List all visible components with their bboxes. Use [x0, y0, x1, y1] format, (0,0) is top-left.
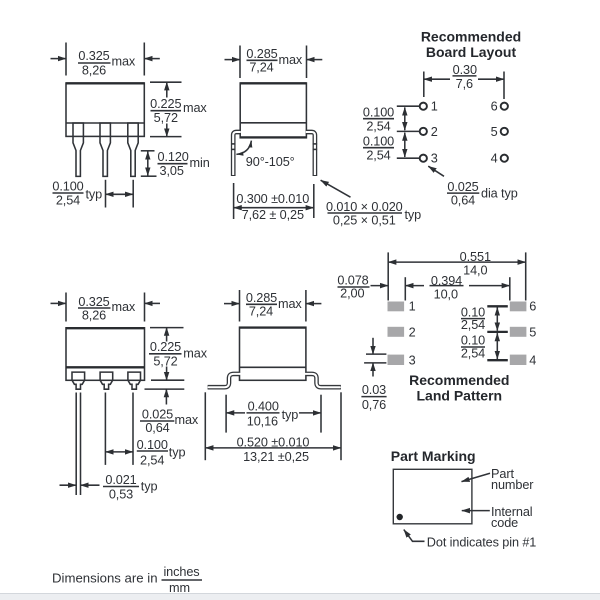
svg-text:0.03: 0.03 — [362, 383, 386, 397]
svg-text:13,21 ±0,25: 13,21 ±0,25 — [243, 450, 309, 464]
dimension 0.325/8,26 max (view4 width) — [51, 293, 161, 323]
hole 2 — [420, 128, 427, 135]
dimension 0.03/0,76 (pad height) — [361, 338, 386, 412]
svg-text:0.021: 0.021 — [105, 473, 136, 487]
svg-text:5,72: 5,72 — [153, 354, 177, 368]
svg-text:0.010 × 0.020: 0.010 × 0.020 — [326, 200, 403, 214]
SMD lead 1 front — [72, 372, 85, 389]
svg-text:0.285: 0.285 — [246, 291, 277, 305]
hole 1 — [420, 103, 427, 110]
footer note Dimensions are in inches/mm — [52, 565, 202, 595]
svg-text:max: max — [112, 55, 136, 69]
DIP right lead side — [306, 132, 317, 176]
svg-text:Land Pattern: Land Pattern — [417, 387, 503, 403]
dimension 0.520 +/-0.010 (overall span) — [205, 392, 341, 464]
svg-text:2,54: 2,54 — [366, 120, 390, 134]
svg-text:6: 6 — [529, 300, 536, 314]
svg-text:0.100: 0.100 — [363, 106, 394, 120]
svg-text:dia typ: dia typ — [481, 186, 518, 200]
svg-text:1: 1 — [409, 300, 416, 314]
land pad 3 — [388, 355, 405, 365]
DIP pin 1 front — [73, 123, 83, 176]
svg-text:0.520 ±0.010: 0.520 ±0.010 — [237, 435, 310, 449]
DIP left lead side — [231, 132, 241, 176]
dimension 0.021/0,53 typ (lead width) — [60, 393, 158, 502]
svg-text:4: 4 — [491, 152, 498, 166]
svg-text:10,16: 10,16 — [247, 415, 278, 429]
land pad 6 — [510, 302, 527, 312]
svg-text:0.100: 0.100 — [52, 180, 83, 194]
svg-text:0.100: 0.100 — [137, 438, 168, 452]
land pad 4 — [510, 355, 527, 365]
svg-text:typ: typ — [86, 187, 103, 201]
svg-text:2,54: 2,54 — [56, 194, 80, 208]
land pad 2 — [388, 327, 405, 337]
svg-text:2: 2 — [431, 125, 438, 139]
svg-text:14,0: 14,0 — [463, 263, 487, 277]
SMD body side view — [240, 327, 306, 380]
svg-text:0.30: 0.30 — [453, 63, 477, 77]
dimension 0.10/2,54 pads 5-4 — [461, 333, 508, 360]
svg-text:min: min — [190, 156, 210, 170]
svg-text:2,00: 2,00 — [340, 287, 364, 301]
title Recommended Board Layout — [421, 29, 521, 61]
svg-text:0.025: 0.025 — [447, 180, 478, 194]
svg-text:max: max — [279, 53, 303, 67]
svg-text:0.225: 0.225 — [150, 97, 181, 111]
svg-text:code: code — [491, 516, 518, 530]
svg-text:0.225: 0.225 — [150, 340, 181, 354]
leader Part number — [462, 467, 535, 492]
svg-text:typ: typ — [141, 479, 158, 493]
svg-text:Dot indicates pin #1: Dot indicates pin #1 — [427, 535, 536, 549]
svg-text:0.300 ±0.010: 0.300 ±0.010 — [236, 192, 309, 206]
svg-text:number: number — [491, 478, 534, 492]
SMD lead 2 front — [100, 372, 113, 389]
hole 5 — [501, 128, 508, 135]
svg-text:5: 5 — [491, 125, 498, 139]
svg-text:typ: typ — [282, 408, 299, 422]
svg-text:0,64: 0,64 — [451, 193, 475, 207]
svg-text:0,64: 0,64 — [145, 421, 169, 435]
dimension 0.285/7,24 max (view5 width) — [224, 290, 321, 322]
SMD body front view — [66, 328, 145, 381]
dimension 0.100/2,54 typ (view4 pitch) — [105, 393, 185, 468]
dimension 0.394/10,0 (pad inner span) — [405, 274, 510, 302]
svg-text:0.325: 0.325 — [78, 49, 109, 63]
svg-text:max: max — [112, 300, 136, 314]
svg-text:Board Layout: Board Layout — [426, 44, 517, 60]
svg-text:mm: mm — [169, 581, 190, 595]
svg-text:0.551: 0.551 — [460, 250, 491, 264]
svg-text:Recommended: Recommended — [421, 29, 521, 45]
svg-text:5,72: 5,72 — [154, 111, 178, 125]
hole 3 — [420, 155, 427, 162]
dimension 0.225/5,72 max (view4 height) — [149, 328, 208, 381]
svg-text:8,26: 8,26 — [82, 308, 106, 322]
svg-text:2,54: 2,54 — [140, 454, 164, 468]
svg-text:3,05: 3,05 — [160, 164, 184, 178]
svg-text:7,62 ± 0,25: 7,62 ± 0,25 — [242, 208, 304, 222]
svg-text:3: 3 — [409, 353, 416, 367]
leader 0.025/0,64 dia typ (hole dia) — [428, 166, 517, 207]
svg-text:Recommended: Recommended — [409, 372, 509, 388]
land pad 5 — [510, 327, 527, 337]
svg-text:5: 5 — [529, 325, 536, 339]
svg-text:typ: typ — [405, 208, 422, 222]
svg-text:0,53: 0,53 — [109, 488, 133, 502]
svg-text:6: 6 — [491, 100, 498, 114]
svg-text:0,25 × 0,51: 0,25 × 0,51 — [333, 213, 396, 227]
svg-text:2: 2 — [409, 325, 416, 339]
dimension 0.10/2,54 pads 6-5 — [461, 305, 508, 332]
svg-text:7,24: 7,24 — [249, 305, 273, 319]
leader Internal code — [462, 505, 533, 530]
svg-text:8,26: 8,26 — [82, 64, 106, 78]
svg-text:2,54: 2,54 — [366, 149, 390, 163]
svg-text:1: 1 — [431, 100, 438, 114]
svg-text:Part Marking: Part Marking — [391, 448, 476, 464]
hole 6 — [501, 103, 508, 110]
svg-text:7,6: 7,6 — [456, 77, 473, 91]
svg-text:0.285: 0.285 — [246, 47, 277, 61]
svg-text:0.120: 0.120 — [158, 150, 189, 164]
dimension 0.30/7,6 (hole row spacing) — [424, 63, 504, 99]
DIP body side view — [240, 83, 306, 138]
footer band — [0, 594, 600, 600]
dimension 0.325/8,26 max (view1 width) — [51, 43, 160, 78]
svg-text:max: max — [175, 413, 199, 427]
part marking box — [393, 469, 472, 524]
svg-text:0.325: 0.325 — [78, 295, 109, 309]
svg-text:0.078: 0.078 — [337, 274, 368, 288]
svg-text:2,54: 2,54 — [461, 318, 485, 332]
dimension 0.120/3,05 min (pin length) — [141, 150, 210, 178]
pin 1 dot — [397, 514, 403, 520]
dimension 0.225/5,72 max (view1 height) — [150, 82, 207, 136]
dimension 0.025/0,64 max (standoff) — [140, 389, 199, 435]
dimension 0.100/2,54 hole pitch rows 2-3 — [363, 133, 419, 163]
svg-text:Dimensions are in: Dimensions are in — [52, 570, 158, 585]
dimension 0.100/2,54 typ (pin pitch) — [52, 180, 133, 208]
svg-text:0,76: 0,76 — [362, 398, 386, 412]
angle dimension 90-105 deg — [236, 141, 294, 169]
svg-text:max: max — [183, 101, 207, 115]
DIP pin 2 front — [100, 123, 110, 176]
SMD left gull-wing lead — [208, 374, 240, 387]
DIP body front view — [66, 83, 144, 136]
svg-text:0.100: 0.100 — [363, 135, 394, 149]
dimension 0.400/10,16 typ (foot bend span) — [226, 395, 321, 433]
svg-text:7,24: 7,24 — [249, 61, 273, 75]
dimension 0.551/14,0 (overall pattern width) — [388, 250, 526, 301]
dimension 0.285/7,24 max (view2 width) — [225, 46, 323, 79]
leader 0.010 x 0.020 (lead section) — [321, 180, 422, 227]
svg-text:max: max — [278, 297, 302, 311]
dimension 0.300 +/-0.010 (lead spacing) — [234, 183, 314, 222]
land pad 1 — [388, 302, 405, 312]
svg-text:4: 4 — [529, 353, 536, 367]
svg-text:90°-105°: 90°-105° — [246, 155, 295, 169]
SMD right gull-wing lead — [306, 374, 341, 387]
svg-text:max: max — [183, 347, 207, 361]
DIP pin 3 front — [128, 123, 138, 176]
svg-text:0.400: 0.400 — [248, 400, 279, 414]
svg-text:3: 3 — [431, 152, 438, 166]
svg-text:0.025: 0.025 — [142, 407, 173, 421]
title Recommended Land Pattern — [409, 372, 509, 404]
svg-text:typ: typ — [169, 446, 186, 460]
dimension 0.078/2,00 (pad width) — [337, 274, 388, 301]
leader Dot indicates pin 1 — [404, 530, 536, 550]
SMD lead 3 front — [128, 372, 141, 389]
svg-text:2,54: 2,54 — [461, 346, 485, 360]
hole 4 — [501, 155, 508, 162]
dimension 0.100/2,54 hole pitch rows 1-2 — [363, 106, 419, 134]
svg-text:inches: inches — [163, 565, 199, 579]
svg-text:10,0: 10,0 — [434, 288, 458, 302]
